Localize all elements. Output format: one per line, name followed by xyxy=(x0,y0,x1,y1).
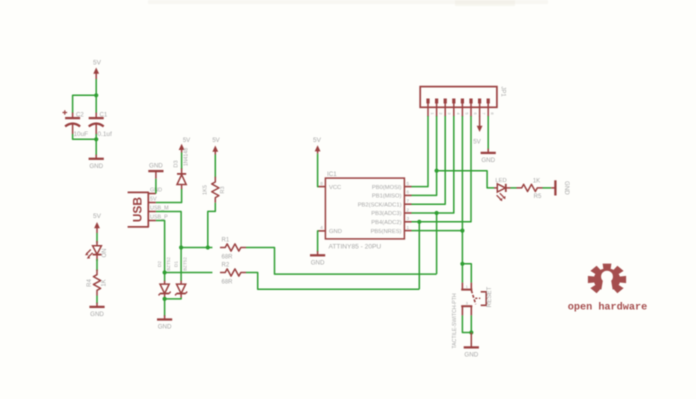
diode D1 BZT52 xyxy=(174,257,188,298)
wire R3 to USB_M net xyxy=(208,203,216,248)
header pin 7 xyxy=(478,99,487,117)
wire to GND xyxy=(95,134,97,156)
wire R5 to GND xyxy=(543,187,552,189)
wire to switch GND xyxy=(470,333,472,345)
switch S1 TACTILE-SWITCH-PTH RESET xyxy=(452,283,493,349)
ground (switch) xyxy=(464,343,479,358)
wire 5V to LED ON xyxy=(96,233,98,243)
svg-text:68R: 68R xyxy=(222,280,234,286)
IC pin PB3(ADC3) (2) xyxy=(371,207,411,217)
svg-text:5: 5 xyxy=(407,181,410,186)
svg-text:R3: R3 xyxy=(220,186,226,193)
svg-text:GND: GND xyxy=(89,163,103,170)
svg-text:JP1: JP1 xyxy=(500,86,506,97)
LED ON xyxy=(85,241,108,261)
svg-text:R4: R4 xyxy=(87,279,93,287)
header pin 2 xyxy=(435,99,444,117)
IC pin PB0(MOSI) (5) xyxy=(372,181,412,191)
node USB_P / R2 junction xyxy=(163,270,167,274)
svg-text:USB_P: USB_P xyxy=(150,215,168,221)
svg-text:PB3(ADC3): PB3(ADC3) xyxy=(371,211,401,217)
svg-text:PB0(MOSI): PB0(MOSI) xyxy=(372,185,402,191)
svg-text:1K: 1K xyxy=(102,279,108,286)
LED (right) xyxy=(494,178,511,201)
ground (header) xyxy=(481,149,496,164)
IC pin PB5(NRES) (1) xyxy=(371,225,412,235)
IC pin PB1(MISO) (6) xyxy=(372,190,412,200)
svg-text:PB4(ADC2): PB4(ADC2) xyxy=(371,220,401,226)
svg-text:5V: 5V xyxy=(473,139,481,146)
node LED branch junction xyxy=(435,169,439,173)
wire header pin5 to NRES xyxy=(461,116,463,264)
svg-text:IC1: IC1 xyxy=(327,171,337,178)
svg-text:GND: GND xyxy=(329,229,342,235)
wire USB GND pin up xyxy=(155,179,157,194)
wire to zener GND xyxy=(164,299,166,316)
svg-text:R5: R5 xyxy=(534,194,542,200)
resistor R1 68R xyxy=(220,238,246,261)
resistor R2 68R xyxy=(220,263,246,286)
wire 5V to R3 xyxy=(214,155,216,179)
node zener gnd junction xyxy=(163,297,167,301)
wire zener bottoms xyxy=(165,298,182,299)
wire LED to R4 xyxy=(96,259,98,271)
ground (cap rail) xyxy=(89,155,104,170)
svg-text:GND: GND xyxy=(149,163,163,170)
wire header pin8 to GND xyxy=(487,116,489,150)
svg-text:5V: 5V xyxy=(183,138,190,144)
svg-text:ATTINY85 - 20PU: ATTINY85 - 20PU xyxy=(329,244,382,251)
svg-text:D1: D1 xyxy=(174,261,180,267)
ground above USB xyxy=(148,163,163,179)
header pin 1 xyxy=(426,99,435,117)
svg-text:GND: GND xyxy=(311,259,325,266)
header pin 5 xyxy=(461,99,470,117)
IC pin PB4(ADC2) (3) xyxy=(371,216,411,226)
wire reset branch xyxy=(462,264,471,283)
wire NRES row xyxy=(412,230,463,232)
wire switch bottom xyxy=(462,315,471,332)
svg-text:5V: 5V xyxy=(212,138,219,144)
wire USB_M net to R1 xyxy=(181,247,212,249)
wire LED branch xyxy=(437,171,494,188)
svg-text:USB_M: USB_M xyxy=(150,206,169,212)
svg-text:GND: GND xyxy=(158,324,172,331)
svg-text:3: 3 xyxy=(407,216,410,221)
faint artifact band xyxy=(148,0,548,4)
supply 5V down-arrow (header pin7) xyxy=(473,116,482,146)
svg-text:GND: GND xyxy=(481,157,495,164)
node riser R2 junction xyxy=(417,220,421,224)
node USB_M / R1 junction xyxy=(179,245,183,249)
capacitor C1 xyxy=(89,112,112,138)
wire cap bottoms xyxy=(73,134,97,139)
svg-text:GND: GND xyxy=(563,181,570,195)
svg-text:D3: D3 xyxy=(174,160,180,167)
svg-text:GND: GND xyxy=(90,311,104,318)
capacitor C2 xyxy=(63,110,89,138)
header pin 8 xyxy=(487,99,496,117)
node cap-top junction xyxy=(94,93,98,97)
svg-text:1K: 1K xyxy=(533,178,540,184)
wire R4 to GND xyxy=(96,296,98,304)
IC pin PB2(SCK/ADC1) (7) xyxy=(358,199,412,209)
svg-text:C1: C1 xyxy=(100,112,108,118)
svg-text:VCC: VCC xyxy=(329,185,341,191)
pin 5V (USB) xyxy=(148,197,157,203)
resistor R5 1K xyxy=(517,178,543,200)
wire VCC xyxy=(317,154,320,187)
svg-text:ON: ON xyxy=(102,249,108,258)
svg-text:TACTILE-SWITCH-PTH: TACTILE-SWITCH-PTH xyxy=(452,293,458,348)
wire header pin1 to PB0 xyxy=(412,116,429,187)
svg-text:2: 2 xyxy=(407,207,410,212)
wire reset left xyxy=(461,264,463,283)
svg-text:68R: 68R xyxy=(222,255,234,261)
svg-text:open hardware: open hardware xyxy=(568,302,647,314)
wire 5V to D3 xyxy=(181,153,183,170)
wire riser R1 to PB3 row xyxy=(436,213,438,274)
wire riser R2 to PB4 row xyxy=(418,222,420,289)
node NRES junction xyxy=(460,229,464,233)
svg-text:5V: 5V xyxy=(313,137,322,144)
svg-text:PB5(NRES): PB5(NRES) xyxy=(371,229,402,235)
wire D3 to USB 5V pin xyxy=(156,189,182,203)
svg-text:8: 8 xyxy=(320,181,323,186)
supply 5V (R3) xyxy=(212,138,219,155)
svg-text:R2: R2 xyxy=(222,263,230,269)
svg-text:1: 1 xyxy=(407,225,410,230)
node reset junction xyxy=(460,262,464,266)
svg-text:R1: R1 xyxy=(222,238,230,244)
svg-text:10uF: 10uF xyxy=(74,131,89,138)
wire header pin3 to PB2 xyxy=(412,116,446,204)
wire USB_M to D1 column xyxy=(156,212,181,282)
supply 5V (D3) xyxy=(179,138,190,153)
connector USB xyxy=(128,192,149,227)
svg-text:D2: D2 xyxy=(157,261,163,267)
node cap-bottom junction xyxy=(94,137,98,141)
wire header pin4 to PB3 xyxy=(412,116,454,213)
svg-text:BZT52: BZT52 xyxy=(183,257,188,271)
svg-text:7: 7 xyxy=(407,199,410,204)
node riser R1 junction xyxy=(435,211,439,215)
resistor R4 xyxy=(87,270,108,296)
wire R1 to PB3 riser xyxy=(246,248,437,275)
header pin 6 xyxy=(469,99,478,117)
svg-text:RESET: RESET xyxy=(486,286,493,307)
svg-text:6: 6 xyxy=(407,190,410,195)
wire to C2 branch xyxy=(73,95,97,113)
svg-text:GND: GND xyxy=(464,351,478,358)
pin USB_P xyxy=(148,215,168,221)
wire header pin2 to PB1 xyxy=(412,116,437,195)
supply 5V (ON led) xyxy=(93,213,102,233)
svg-text:3: 3 xyxy=(466,301,468,305)
svg-text:1N4148: 1N4148 xyxy=(183,148,189,166)
ground (zeners) xyxy=(157,315,172,330)
wire IC GND xyxy=(317,231,320,252)
connector JP3 header xyxy=(420,86,505,107)
diode D2 BZT52 xyxy=(157,257,171,298)
svg-text:USB: USB xyxy=(131,197,145,223)
svg-text:C2: C2 xyxy=(76,112,84,118)
IC pin GND (4) xyxy=(319,225,342,235)
pin USB_M xyxy=(148,206,169,212)
svg-text:5V: 5V xyxy=(93,60,102,67)
node switch gnd junction xyxy=(469,330,473,334)
svg-text:5V: 5V xyxy=(93,213,102,220)
wire 5V to junction xyxy=(95,79,97,95)
IC IC1 ATTINY85-20PU xyxy=(325,171,404,251)
svg-text:LED: LED xyxy=(495,178,506,184)
svg-text:4: 4 xyxy=(320,225,323,230)
IC pin VCC (8) xyxy=(319,181,342,191)
svg-text:PB2(SCK/ADC1): PB2(SCK/ADC1) xyxy=(358,202,402,208)
header pin 4 xyxy=(452,99,461,117)
ground (IC) xyxy=(310,251,325,266)
supply 5V (cap rail) xyxy=(93,60,102,80)
wire USB_P to D2 column xyxy=(156,221,165,282)
wire LED to R5 xyxy=(511,187,517,189)
svg-text:5V: 5V xyxy=(150,197,157,203)
node R3 junction xyxy=(206,245,210,249)
wire junction to C1 xyxy=(95,95,97,113)
svg-text:0.1uf: 0.1uf xyxy=(98,131,112,138)
wire USB_P net to R2 xyxy=(165,272,213,274)
svg-text:1K5: 1K5 xyxy=(203,185,209,195)
resistor R3 1K5 xyxy=(203,177,227,203)
wire header pin6 to PB4 xyxy=(412,116,472,222)
header pin 3 xyxy=(444,99,453,117)
diode D3 1N4148 xyxy=(174,148,190,190)
svg-text:PB1(MISO): PB1(MISO) xyxy=(372,194,402,200)
pin GND (USB) xyxy=(148,188,162,194)
ground (R5, rotated) xyxy=(551,180,570,195)
supply 5V (VCC) xyxy=(313,137,322,154)
ground (ON led) xyxy=(89,303,104,318)
svg-text:BZT52: BZT52 xyxy=(166,257,171,271)
svg-text:1: 1 xyxy=(466,285,468,289)
wire R2 to PB4 riser xyxy=(246,273,419,290)
open hardware logo gear xyxy=(588,264,626,294)
